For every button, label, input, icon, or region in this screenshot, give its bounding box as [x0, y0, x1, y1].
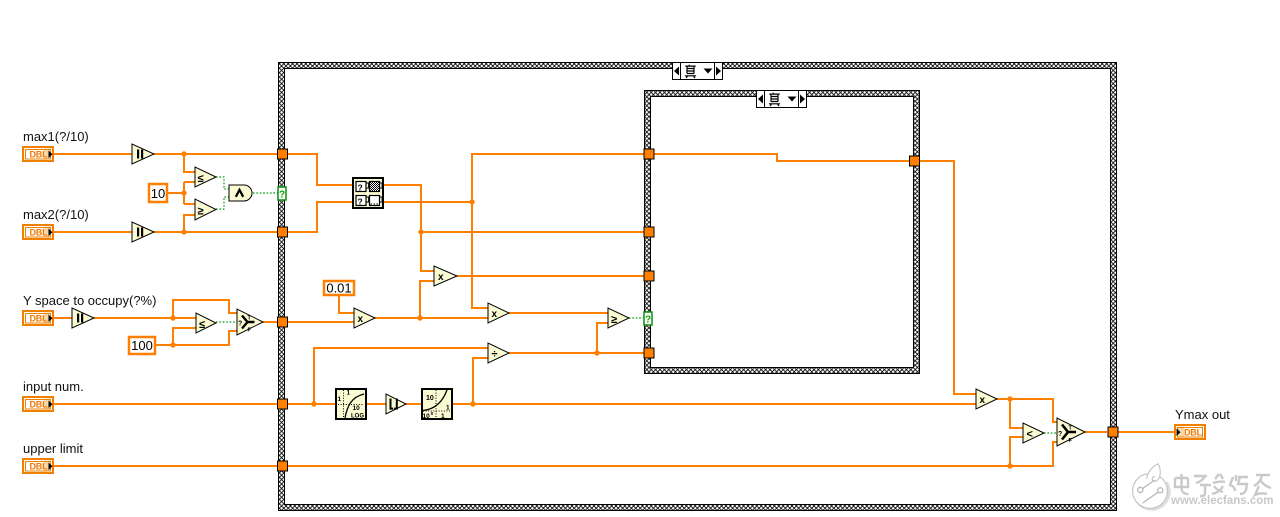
- wire branch max2 to greater-equal input: [184, 215, 195, 232]
- wire boolean less-equal-b to select1: [216, 321, 237, 323]
- wire converter2 to left tunnel: [154, 231, 283, 233]
- control terminal Yspace DBL: [23, 311, 53, 325]
- divide node: [488, 343, 509, 363]
- tunnel B on inner border: [644, 227, 654, 237]
- tunnel E on inner border: [644, 348, 654, 358]
- wire branch max1 to less-equal input: [184, 154, 195, 172]
- comparator greater-equal-b: [608, 308, 629, 328]
- svg-text:÷: ÷: [492, 349, 498, 361]
- junction constant10: [181, 190, 186, 195]
- svg-text:10: 10: [423, 413, 431, 420]
- wire right tunnel to indicator: [1118, 431, 1174, 433]
- junction constant100: [170, 342, 175, 347]
- wire constant 0.01 to multiply-small: [339, 296, 354, 313]
- multiply M2: [488, 303, 509, 323]
- control terminal max1 DBL: [23, 147, 53, 161]
- wire MaxMin max output to tunnel B and multiply1: [384, 185, 644, 271]
- svg-text:DBL: DBL: [30, 462, 49, 472]
- tunnel boolean ? on outer border: [278, 187, 286, 201]
- svg-text:1: 1: [441, 413, 445, 420]
- wire boolean AND to ? tunnel: [253, 192, 278, 194]
- wire multiply2 output to greater-equal-b: [509, 312, 608, 314]
- comparator less-equal-b (Yspace vs 100): [196, 313, 216, 333]
- case selector label inner (真): [757, 91, 807, 108]
- wire boolean greater-equal to AND: [216, 197, 229, 209]
- multiply-small (0.01 x Yspace): [354, 308, 375, 328]
- wire multiply3 output branches: [997, 399, 1057, 428]
- svg-text:10: 10: [353, 405, 361, 412]
- wire upper limit run: [53, 465, 1011, 467]
- control terminal upper limit DBL: [23, 459, 53, 473]
- svg-text:≤: ≤: [199, 319, 205, 331]
- comparator less-equal (max1 vs 10): [195, 167, 216, 187]
- floor converter (round toward -inf): [386, 394, 406, 414]
- svg-text:10: 10: [151, 186, 165, 201]
- svg-text:x: x: [492, 309, 498, 320]
- svg-text:input num.: input num.: [23, 379, 84, 394]
- tunnel input num on outer border: [278, 399, 288, 409]
- wire max2 tunnel to MaxMin bottom input: [288, 202, 352, 232]
- svg-text:100: 100: [131, 338, 153, 353]
- svg-text:?: ?: [238, 321, 242, 328]
- constant 0.01: [324, 281, 354, 296]
- svg-text:<: <: [1027, 429, 1033, 441]
- constant 10: [149, 184, 167, 202]
- tunnel output on outer right border: [1108, 427, 1118, 437]
- wire max1 tunnel to MaxMin top input: [288, 154, 352, 185]
- wire boolean greater-equal-b to inner ? tunnel: [629, 317, 643, 319]
- tunnel upper limit on outer border: [278, 461, 288, 471]
- svg-text:LOG: LOG: [351, 414, 364, 420]
- wire multiply1 bottom input: [420, 281, 434, 318]
- tunnel C on inner border: [644, 271, 654, 281]
- wire upper limit branches to less-than and select2: [1010, 437, 1057, 466]
- junction min-output: [469, 199, 474, 204]
- junction max1: [181, 151, 186, 156]
- svg-text:DBL: DBL: [30, 314, 49, 324]
- svg-text:1: 1: [347, 390, 351, 397]
- svg-text:1: 1: [446, 405, 450, 412]
- wire select2 output to right tunnel: [1085, 431, 1107, 433]
- comparator less-than: [1023, 423, 1044, 443]
- wire divide top input chain: [314, 348, 488, 404]
- svg-text:www.elecfans.com: www.elecfans.com: [1170, 495, 1273, 507]
- wire floor to pow10: [406, 403, 421, 405]
- watermark chinese text: [1175, 474, 1272, 497]
- power of 10 node: [422, 389, 452, 420]
- converter U1 (to-double, max1): [132, 144, 154, 164]
- wire inner structure pass-through: [654, 154, 909, 161]
- wire branch Yspace to select1 top: [173, 300, 237, 318]
- junction Yspace: [170, 315, 175, 320]
- wire select1 output to tunnel: [263, 321, 277, 323]
- svg-text:Ymax out: Ymax out: [1175, 407, 1230, 422]
- svg-text:DBL: DBL: [1184, 428, 1203, 438]
- comparator greater-equal (max2 vs 10): [195, 199, 216, 220]
- logarithm base 10 node: [336, 389, 366, 420]
- svg-text:max2(?/10): max2(?/10): [23, 207, 89, 222]
- select node S1: [237, 309, 263, 335]
- junction upper limit: [1007, 463, 1012, 468]
- wire max1 terminal to converter: [53, 153, 133, 155]
- wire converter3 to less-equal-b: [94, 317, 196, 319]
- wire converter1 to left tunnel: [154, 153, 283, 155]
- tunnel A on inner border: [644, 149, 654, 159]
- multiply M3: [976, 389, 997, 409]
- junction input num right: [470, 401, 475, 406]
- wire Yspace tunnel to multiply-small: [288, 321, 354, 323]
- svg-text:DBL: DBL: [30, 150, 49, 160]
- tunnel max1 on outer border: [278, 149, 288, 159]
- tunnel max2 on outer border: [278, 227, 288, 237]
- svg-text:?: ?: [358, 183, 363, 193]
- wire multiply-small output to multiply2: [375, 317, 488, 319]
- wire boolean less-than to select2: [1044, 432, 1057, 434]
- svg-text:max1(?/10): max1(?/10): [23, 129, 89, 144]
- wire input num terminal to LOG: [53, 403, 336, 405]
- junction input num left: [311, 401, 316, 406]
- converter U3 (to-double, Yspace): [72, 308, 94, 328]
- wire multiply1 output to tunnel C: [457, 275, 644, 277]
- Max &amp; Min function node: [353, 178, 383, 208]
- select node S2: [1057, 418, 1085, 446]
- wire divide bottom input chain: [473, 358, 488, 404]
- wire MaxMin min output to tunnel A and multiply2: [384, 154, 644, 308]
- svg-text:≥: ≥: [198, 206, 204, 218]
- wire constant 100 to select1 and less-equal-b: [156, 328, 237, 345]
- watermark logo circle: [1132, 464, 1170, 512]
- wire constant 10 to comparators: [168, 182, 195, 204]
- control terminal max2 DBL: [23, 225, 53, 239]
- svg-text:?: ?: [1058, 431, 1062, 438]
- svg-text:10: 10: [426, 395, 434, 402]
- wire Yspace terminal to converter: [53, 317, 73, 319]
- wire boolean less-equal to AND: [216, 177, 229, 189]
- svg-text:1: 1: [338, 396, 342, 403]
- indicator terminal Ymax out DBL: [1175, 425, 1205, 439]
- tunnel boolean ? on inner border: [644, 312, 652, 326]
- svg-text:upper limit: upper limit: [23, 441, 83, 456]
- svg-text:≥: ≥: [611, 314, 617, 326]
- wire max2 terminal to converter: [53, 231, 133, 233]
- multiply M1: [434, 266, 457, 286]
- junction divide output: [594, 350, 599, 355]
- wire divide output to tunnel E: [509, 323, 644, 353]
- svg-text:?: ?: [279, 190, 285, 201]
- junction max-output: [418, 229, 423, 234]
- constant 100: [129, 337, 155, 354]
- case selector label outer (真): [673, 63, 723, 80]
- wire LOG to floor: [367, 403, 386, 405]
- svg-text:DBL: DBL: [30, 400, 49, 410]
- svg-text:?: ?: [358, 197, 363, 207]
- tunnel inner right: [910, 156, 920, 166]
- tunnel Yspace on outer border: [278, 317, 288, 327]
- junction multiply-small output: [417, 315, 422, 320]
- junction max2: [181, 229, 186, 234]
- svg-text:0.01: 0.01: [326, 281, 351, 296]
- svg-text:Y space to occupy(?%): Y space to occupy(?%): [23, 293, 156, 308]
- control terminal input num DBL: [23, 397, 53, 411]
- junction multiply3 output: [1007, 396, 1012, 401]
- wire pow10 output long run to multiply3: [453, 403, 976, 405]
- inner case structure border: [644, 90, 920, 374]
- svg-text:DBL: DBL: [30, 228, 49, 238]
- svg-text:x: x: [431, 411, 434, 417]
- case structure outer border: [278, 62, 1117, 511]
- svg-text:?: ?: [645, 315, 651, 326]
- svg-text:x: x: [358, 314, 364, 325]
- AND gate: [229, 185, 252, 201]
- wire inner right tunnel to multiply3 top: [920, 161, 976, 394]
- svg-text:x: x: [980, 395, 986, 406]
- svg-text:x: x: [438, 272, 444, 283]
- svg-text:≤: ≤: [198, 173, 204, 185]
- converter U2 (to-double, max2): [132, 222, 154, 242]
